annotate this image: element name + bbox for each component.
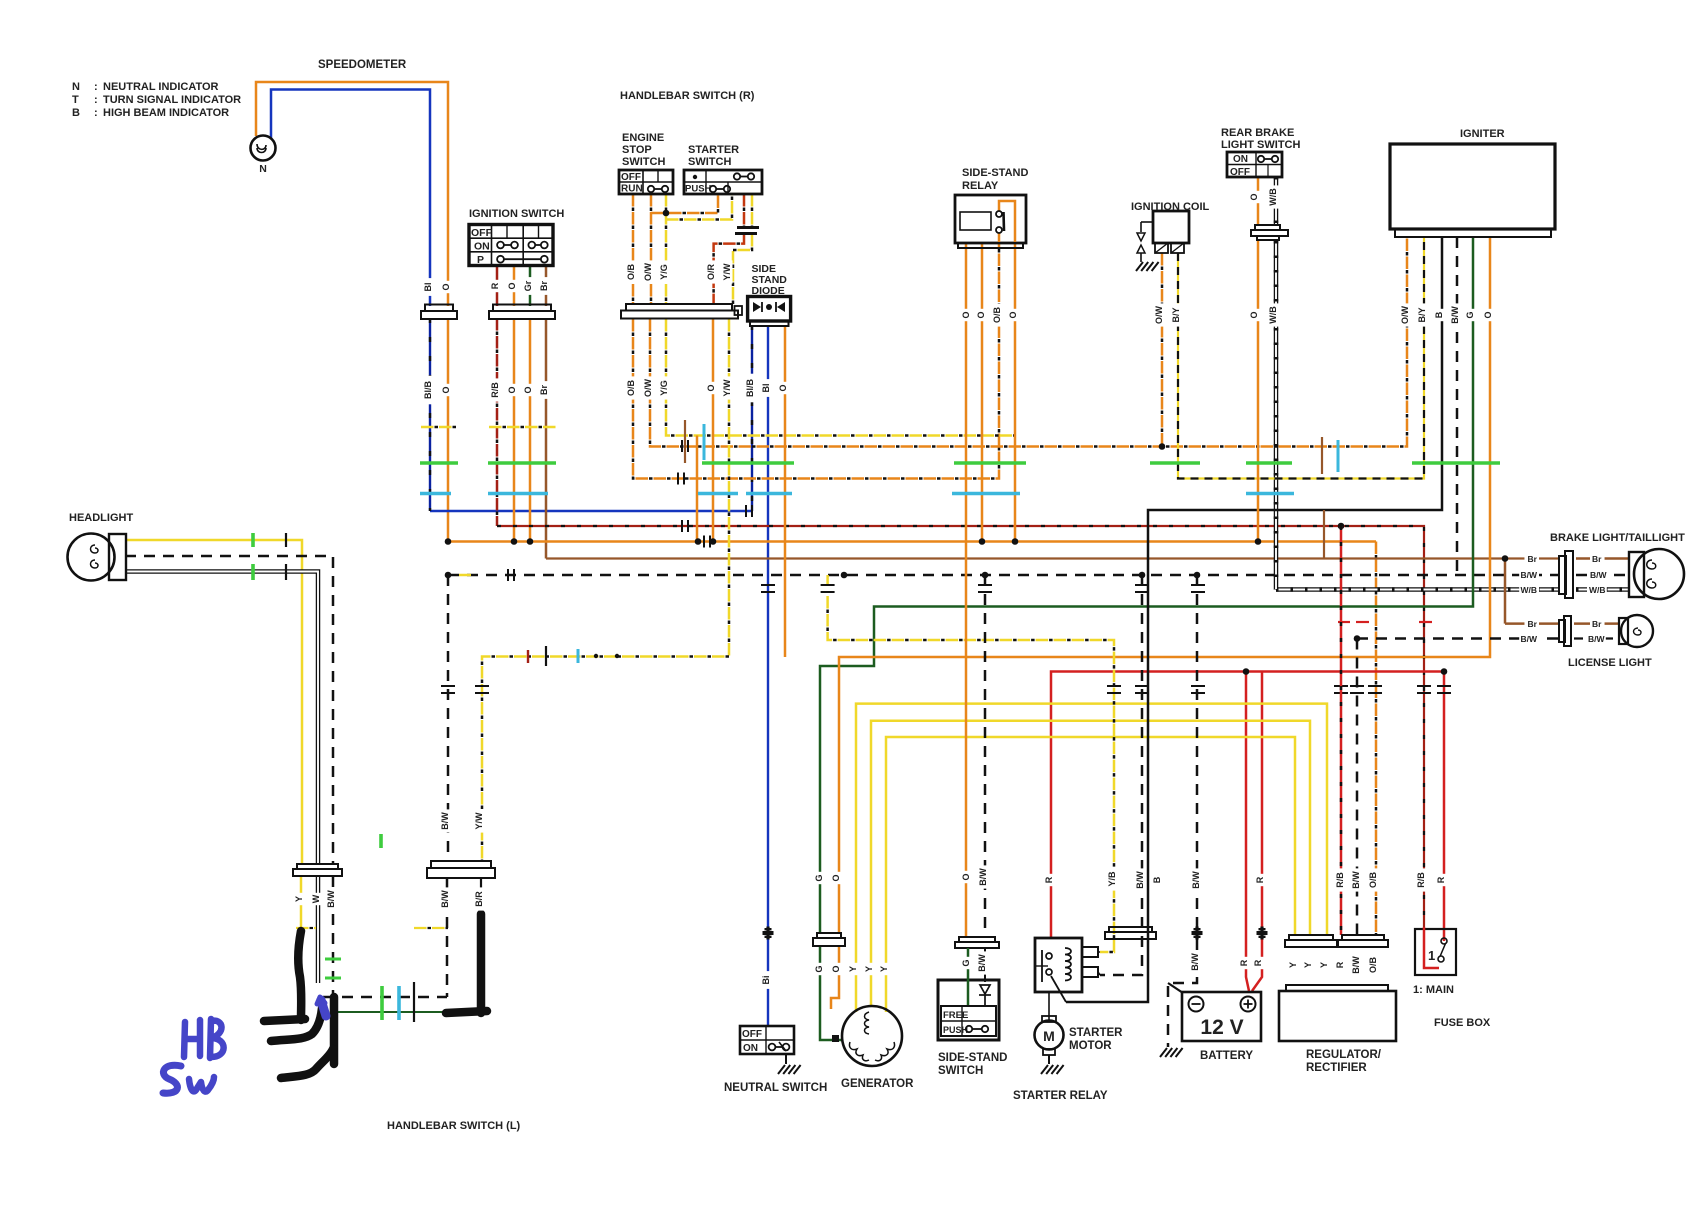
svg-text:G: G [814, 874, 824, 881]
svg-text:RUN: RUN [621, 184, 643, 195]
svg-text:Br: Br [1592, 554, 1602, 564]
svg-text:O/R: O/R [706, 264, 716, 281]
svg-text:Gr: Gr [523, 280, 533, 291]
svg-text:Y/W: Y/W [722, 263, 732, 281]
svg-text:B: B [72, 107, 80, 119]
svg-text:W/B: W/B [1268, 188, 1278, 206]
svg-text:B/W: B/W [440, 890, 450, 908]
svg-text:O/W: O/W [643, 378, 653, 397]
svg-text:Bl: Bl [423, 283, 433, 292]
svg-text:Bl: Bl [761, 384, 771, 393]
svg-text:SWITCH: SWITCH [938, 1065, 983, 1077]
svg-text:W/B: W/B [1268, 306, 1278, 324]
svg-text:OFF: OFF [621, 172, 641, 183]
svg-text:Bi: Bi [761, 976, 771, 985]
svg-text:G: G [1465, 311, 1475, 318]
svg-text:B/W: B/W [978, 868, 988, 886]
svg-text:O: O [778, 384, 788, 391]
svg-text:Y: Y [1288, 962, 1298, 968]
svg-text:Y/W: Y/W [722, 379, 732, 397]
svg-text:OFF: OFF [1230, 167, 1250, 178]
svg-text:MOTOR: MOTOR [1069, 1040, 1112, 1052]
svg-text:REAR BRAKE: REAR BRAKE [1221, 127, 1294, 139]
svg-text:O: O [961, 873, 971, 880]
svg-text:O: O [441, 283, 451, 290]
svg-text:Y: Y [879, 966, 889, 972]
svg-text:SIDE-STAND: SIDE-STAND [962, 167, 1028, 179]
svg-text:BATTERY: BATTERY [1200, 1050, 1253, 1062]
svg-text:O/W: O/W [1154, 305, 1164, 324]
svg-text:O/B: O/B [1368, 872, 1378, 889]
svg-text:R: R [1044, 876, 1054, 883]
svg-text::: : [94, 94, 98, 106]
svg-text:HANDLEBAR SWITCH (R): HANDLEBAR SWITCH (R) [620, 90, 755, 102]
svg-text:G: G [814, 965, 824, 972]
svg-text:B/W: B/W [1520, 570, 1538, 580]
svg-text:Y/B: Y/B [1107, 871, 1117, 887]
svg-text:O: O [441, 386, 451, 393]
svg-text:FREE: FREE [943, 1010, 968, 1021]
svg-text:R/B: R/B [1335, 872, 1345, 888]
svg-text:O: O [961, 311, 971, 318]
svg-text:HEADLIGHT: HEADLIGHT [69, 512, 133, 524]
svg-text:W: W [311, 894, 321, 903]
svg-text:B/Y: B/Y [1417, 307, 1427, 322]
svg-text:IGNITER: IGNITER [1460, 128, 1505, 140]
svg-text:Br: Br [1528, 554, 1538, 564]
svg-text:OFF: OFF [471, 227, 493, 239]
svg-text:ON: ON [474, 241, 490, 253]
svg-text:Y: Y [864, 966, 874, 972]
svg-text:B: B [1434, 311, 1444, 318]
svg-text:FUSE BOX: FUSE BOX [1434, 1017, 1491, 1029]
svg-text:R: R [490, 282, 500, 289]
svg-text:O: O [507, 386, 517, 393]
svg-text:O/B: O/B [626, 380, 636, 397]
svg-text:SWITCH: SWITCH [688, 156, 731, 168]
svg-text:RELAY: RELAY [962, 180, 999, 192]
svg-text:Y: Y [848, 966, 858, 972]
svg-text:1: 1 [1428, 948, 1435, 963]
svg-text:STARTER: STARTER [1069, 1027, 1123, 1039]
svg-text:R: R [1255, 876, 1265, 883]
svg-text:B/W: B/W [1135, 871, 1145, 889]
svg-text:O: O [1483, 311, 1493, 318]
svg-text:B/W: B/W [1590, 570, 1608, 580]
svg-text:DIODE: DIODE [752, 285, 785, 297]
svg-text:O: O [831, 965, 841, 972]
svg-text:B/R: B/R [474, 891, 484, 907]
svg-text:Br: Br [539, 281, 549, 291]
svg-text:W/B: W/B [1589, 585, 1606, 595]
svg-text:1: MAIN: 1: MAIN [1413, 984, 1454, 996]
svg-text:Br: Br [539, 385, 549, 395]
svg-text:M: M [1043, 1028, 1055, 1044]
svg-text:R: R [1436, 876, 1446, 883]
svg-text:O/B: O/B [992, 307, 1002, 324]
svg-text:TURN SIGNAL INDICATOR: TURN SIGNAL INDICATOR [103, 94, 241, 106]
svg-text:Y/G: Y/G [659, 264, 669, 280]
svg-text:O: O [1249, 311, 1259, 318]
svg-text:B/W: B/W [1351, 956, 1361, 974]
svg-text:Y: Y [294, 896, 304, 902]
svg-text:N: N [259, 163, 267, 175]
svg-text:OFF: OFF [742, 1029, 762, 1040]
svg-text:IGNITION SWITCH: IGNITION SWITCH [469, 208, 564, 220]
svg-text:G: G [961, 959, 971, 966]
svg-text:N: N [72, 81, 80, 93]
svg-text:O: O [1249, 193, 1259, 200]
svg-text:O: O [523, 386, 533, 393]
svg-text:O: O [976, 311, 986, 318]
svg-text:SWITCH: SWITCH [622, 156, 665, 168]
svg-text:RECTIFIER: RECTIFIER [1306, 1062, 1367, 1074]
svg-text:B/W: B/W [1520, 634, 1538, 644]
svg-text:T: T [72, 94, 79, 106]
svg-text:B/W: B/W [440, 812, 450, 830]
svg-text:R: R [1253, 959, 1263, 966]
svg-text:PUSH: PUSH [943, 1025, 968, 1035]
svg-text:HIGH BEAM INDICATOR: HIGH BEAM INDICATOR [103, 107, 229, 119]
svg-text:B/W: B/W [326, 890, 336, 908]
svg-text:Bl/B: Bl/B [745, 378, 755, 397]
svg-text:SIDE-STAND: SIDE-STAND [938, 1052, 1007, 1064]
svg-text:R/B: R/B [490, 382, 500, 398]
svg-text:R: R [1335, 961, 1345, 968]
svg-text:ENGINE: ENGINE [622, 132, 664, 144]
svg-text:O/B: O/B [1368, 957, 1378, 974]
svg-text:O: O [507, 282, 517, 289]
svg-text:R/B: R/B [1416, 872, 1426, 888]
svg-text:Br: Br [1592, 619, 1602, 629]
svg-text:O: O [831, 874, 841, 881]
svg-text:P: P [477, 254, 484, 266]
svg-text:B/W: B/W [1351, 871, 1361, 889]
svg-text:BRAKE LIGHT/TAILLIGHT: BRAKE LIGHT/TAILLIGHT [1550, 532, 1685, 544]
svg-text::: : [94, 107, 98, 119]
svg-text:Y: Y [1319, 962, 1329, 968]
svg-text:REGULATOR/: REGULATOR/ [1306, 1049, 1382, 1061]
svg-text:O/W: O/W [643, 262, 653, 281]
svg-text:STARTER RELAY: STARTER RELAY [1013, 1090, 1108, 1102]
svg-text:O/B: O/B [626, 264, 636, 281]
svg-text:B/W: B/W [977, 954, 987, 972]
svg-text:LIGHT SWITCH: LIGHT SWITCH [1221, 139, 1300, 151]
svg-text:W/B: W/B [1520, 585, 1537, 595]
svg-text:O: O [706, 384, 716, 391]
svg-text:LICENSE LIGHT: LICENSE LIGHT [1568, 657, 1652, 669]
svg-text:IGNITION COIL: IGNITION COIL [1131, 201, 1210, 213]
svg-text:ON: ON [1233, 154, 1248, 165]
svg-text:B: B [1152, 876, 1162, 883]
svg-text:GENERATOR: GENERATOR [841, 1078, 914, 1090]
svg-text:Y/W: Y/W [474, 812, 484, 830]
svg-text:SPEEDOMETER: SPEEDOMETER [318, 59, 407, 71]
svg-text:PUSH: PUSH [685, 184, 712, 195]
svg-text:HANDLEBAR SWITCH (L): HANDLEBAR SWITCH (L) [387, 1120, 521, 1132]
svg-text:B/W: B/W [1191, 871, 1201, 889]
svg-text:O: O [1008, 311, 1018, 318]
svg-text:B/W: B/W [1190, 953, 1200, 971]
svg-text:NEUTRAL SWITCH: NEUTRAL SWITCH [724, 1082, 827, 1094]
svg-text:B/W: B/W [1588, 634, 1606, 644]
svg-text:12 V: 12 V [1200, 1016, 1243, 1039]
svg-text:STARTER: STARTER [688, 144, 739, 156]
svg-text:B/W: B/W [1450, 306, 1460, 324]
svg-text:STOP: STOP [622, 144, 652, 156]
svg-text:ON: ON [743, 1043, 758, 1054]
svg-text:R: R [1239, 959, 1249, 966]
svg-text:Y/G: Y/G [659, 380, 669, 396]
svg-text:B/Y: B/Y [1171, 307, 1181, 322]
svg-text:O/W: O/W [1400, 305, 1410, 324]
svg-text:Br: Br [1528, 619, 1538, 629]
svg-text::: : [94, 81, 98, 93]
svg-text:Bl/B: Bl/B [423, 380, 433, 399]
svg-text:NEUTRAL INDICATOR: NEUTRAL INDICATOR [103, 81, 219, 93]
svg-text:Y: Y [1303, 962, 1313, 968]
